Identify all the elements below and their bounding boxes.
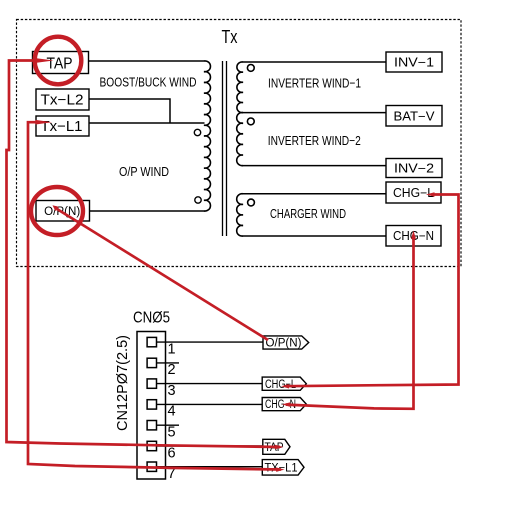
- polarity dot W1: [247, 65, 254, 72]
- net flag CHG-N: [262, 398, 306, 412]
- red arrowhead at CHG-L flag: [281, 384, 289, 388]
- dashed transformer boundary box: [17, 20, 462, 267]
- terminal box O/P(N): [36, 201, 90, 222]
- wire TAP to primary winding: [89, 60, 205, 62]
- pin 1 square: [147, 337, 156, 346]
- svg-text:CHG−L: CHG−L: [393, 186, 434, 200]
- svg-text:O/P(N): O/P(N): [266, 338, 302, 350]
- pin 5 square: [147, 421, 156, 430]
- red arrowhead at Tx-L1 box: [36, 120, 53, 125]
- pin 7 wire: [157, 466, 264, 468]
- primary winding coil: [204, 61, 210, 211]
- terminal box Tx-L2: [36, 89, 89, 110]
- red arrowhead at TAP flag: [275, 445, 284, 449]
- svg-text:TAP: TAP: [47, 56, 73, 73]
- transformer core: [223, 61, 227, 236]
- red annotation circle around TAP: [35, 37, 82, 85]
- red wire CHG-N box to CHG-N flag: [286, 235, 414, 409]
- wire W3 top to CHG-L: [243, 193, 387, 195]
- svg-text:1: 1: [168, 341, 176, 357]
- terminal box Tx-L1: [36, 116, 89, 136]
- pin 3 square: [147, 379, 156, 388]
- red wire Tx-L1 box to TX-L1 flag: [28, 122, 281, 469]
- pin 5 wire stub: [157, 424, 180, 426]
- svg-text:BAT−V: BAT−V: [394, 109, 436, 123]
- terminal box INV-2: [386, 159, 442, 178]
- red arrowhead at CHG-N flag: [282, 402, 290, 406]
- svg-text:3: 3: [168, 383, 176, 399]
- secondary winding W3 (CHARGER WIND): [237, 194, 243, 236]
- wire W1 top to INV-1: [243, 61, 387, 63]
- terminal box TAP: [33, 52, 89, 74]
- pin 4 wire: [157, 403, 264, 405]
- svg-text:INV−1: INV−1: [394, 56, 434, 70]
- wire W3 bottom to CHG-N: [243, 235, 387, 237]
- net flag O/P(N): [263, 336, 309, 350]
- svg-text:INVERTER WIND−1: INVERTER WIND−1: [268, 76, 361, 91]
- primary polarity dot upper: [194, 129, 200, 135]
- pin 1 wire: [157, 341, 264, 343]
- red wire CHG-L box to CHG-L flag: [285, 195, 459, 387]
- pin 6 wire: [157, 445, 264, 447]
- svg-text:5: 5: [168, 425, 176, 441]
- wire Tx-L2 tap: [89, 99, 170, 123]
- svg-text:Tx: Tx: [222, 27, 238, 47]
- svg-text:4: 4: [168, 404, 176, 420]
- wire Tx-L1 to winding tap: [89, 122, 205, 124]
- svg-text:INVERTER WIND−2: INVERTER WIND−2: [268, 133, 361, 148]
- red arrowhead at CHG-L box: [426, 192, 435, 197]
- svg-text:Tx−L1: Tx−L1: [41, 119, 83, 135]
- pin 3 wire: [157, 383, 264, 385]
- red arrowhead at TAP box: [37, 58, 54, 63]
- svg-text:CN12PØ7(2.5): CN12PØ7(2.5): [114, 335, 131, 431]
- net flag TAP: [263, 439, 290, 454]
- pin 2 square: [147, 358, 156, 367]
- wire W1/W2 junction to BAT-V: [243, 112, 387, 114]
- net flag CHG-L: [262, 377, 306, 391]
- svg-text:2: 2: [168, 362, 176, 378]
- terminal box INV-1: [386, 52, 442, 72]
- red wire TAP box to TAP flag: [7, 61, 281, 448]
- secondary winding W2 (INVERTER WIND-2): [237, 113, 243, 166]
- svg-text:Tx−L2: Tx−L2: [41, 93, 84, 109]
- red arrowhead at O/P(N) box: [53, 205, 59, 211]
- wire W2 bottom to INV-2: [243, 165, 387, 167]
- svg-text:CHARGER WIND: CHARGER WIND: [270, 206, 346, 221]
- pin 4 square: [147, 400, 156, 409]
- net flag TX-L1: [262, 460, 304, 476]
- red wire O/P(N) box to O/P(N) flag (diagonal): [57, 209, 268, 340]
- pin 6 square: [147, 441, 156, 450]
- red annotation circle around O/P(N): [31, 187, 83, 235]
- pin 2 wire stub: [157, 362, 180, 364]
- svg-text:CNØ5: CNØ5: [133, 310, 170, 327]
- connector CN05 body: [137, 332, 166, 480]
- svg-text:INV−2: INV−2: [394, 162, 434, 176]
- svg-text:O/P WIND: O/P WIND: [119, 164, 169, 179]
- primary polarity dot lower: [195, 197, 201, 203]
- pin 7 square: [147, 462, 156, 471]
- red arrowhead at CHG-N box: [411, 231, 416, 240]
- polarity dot W3: [248, 199, 255, 206]
- red arrowhead at TX-L1 flag: [276, 467, 285, 471]
- polarity dot W2: [247, 118, 254, 125]
- terminal box CHG-L: [386, 182, 441, 203]
- svg-text:BOOST/BUCK WIND: BOOST/BUCK WIND: [100, 75, 197, 90]
- svg-text:6: 6: [168, 445, 176, 461]
- secondary winding W1 (INVERTER WIND-1): [237, 62, 243, 113]
- terminal box CHG-N: [386, 226, 441, 247]
- terminal box BAT-V: [386, 106, 442, 127]
- wire O/P(N) to winding bottom: [90, 210, 205, 212]
